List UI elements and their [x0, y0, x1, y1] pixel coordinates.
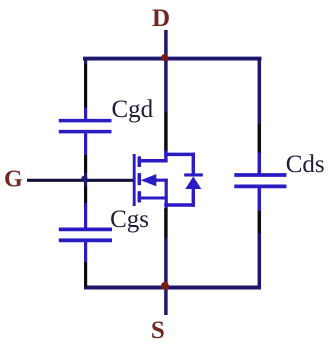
svg-text:Cds: Cds	[286, 151, 325, 178]
svg-text:D: D	[152, 5, 170, 32]
svg-text:G: G	[4, 167, 23, 193]
svg-text:Cgd: Cgd	[112, 96, 154, 123]
svg-text:S: S	[151, 317, 165, 344]
svg-text:Cgs: Cgs	[110, 206, 149, 233]
